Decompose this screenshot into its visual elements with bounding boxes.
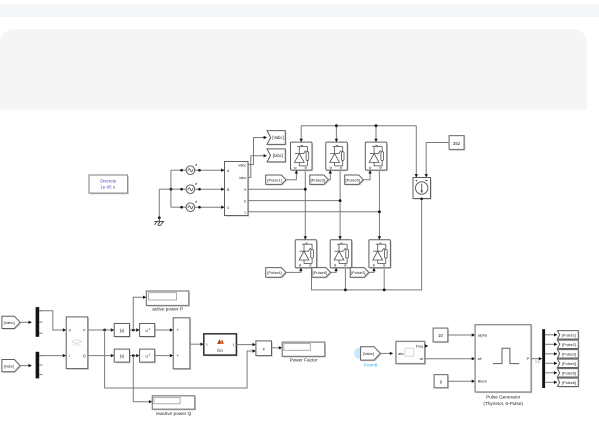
wire from Vabc to demux (20, 321, 28, 323)
svg-text:10: 10 (438, 333, 443, 338)
junction top bus T5 (375, 124, 378, 127)
svg-text:C: C (227, 206, 230, 210)
svg-text:[Pulse4]: [Pulse4] (562, 361, 576, 366)
junction |Q| (132, 354, 135, 357)
wire abs to square P (130, 329, 137, 331)
svg-text:Pulse Generator: Pulse Generator (486, 394, 521, 399)
wire demux out 5 (545, 372, 554, 374)
thyristor T2 (369, 240, 392, 269)
demux stub (39, 332, 42, 334)
wire demux out 1 (545, 334, 554, 336)
goto Iabc (268, 150, 286, 163)
svg-text:active power P: active power P (152, 307, 183, 312)
svg-text:c: c (244, 211, 246, 215)
thyristor T4 (295, 240, 318, 269)
svg-text:[Pulse3]: [Pulse3] (311, 177, 325, 182)
svg-text:From6: From6 (364, 363, 378, 369)
svg-text:[Vabc]: [Vabc] (363, 351, 374, 356)
wire Iabc to goto (248, 156, 264, 178)
wire (195, 206, 225, 208)
svg-text:abc: abc (398, 352, 404, 356)
virtual PLL block (397, 343, 426, 365)
wire bottom DC bus (312, 199, 422, 290)
wire bus to thyristor top (335, 126, 337, 142)
wire 0 to Block (448, 380, 472, 382)
square block u2 (Q) (141, 350, 156, 363)
wire to display P (133, 297, 143, 330)
wire bus to load + (415, 126, 417, 178)
junction phase a (304, 188, 307, 191)
svg-text:u: u (145, 328, 147, 333)
three-phase V-I measurement block (226, 163, 250, 217)
goto Pulse1 (559, 332, 580, 340)
wire Q out (88, 355, 111, 357)
svg-text:Power Factor: Power Factor (290, 358, 318, 363)
from Pulse1 (267, 176, 287, 185)
wire from Iabc to demux (20, 365, 28, 367)
controlled current source load (414, 179, 432, 200)
wire demux out 6 (545, 381, 554, 383)
wire demux out 3 (545, 353, 554, 355)
wire square to sum Q (155, 355, 170, 357)
header panel (0, 29, 587, 110)
svg-text:Vabc: Vabc (238, 164, 246, 168)
wire (195, 188, 225, 190)
wire P to demux (531, 358, 539, 360)
wire From6 to PLL (380, 352, 389, 354)
svg-text:352: 352 (453, 141, 461, 146)
svg-text:[Vabc]: [Vabc] (272, 135, 283, 140)
wire abs to square Q (130, 355, 137, 357)
thyristor T5 (365, 142, 388, 171)
sum block (174, 319, 191, 370)
junction |P| (132, 329, 135, 332)
svg-text:[Pulse1]: [Pulse1] (267, 177, 281, 182)
wire phase b vertical (339, 170, 341, 240)
svg-text:1e-05 s.: 1e-05 s. (100, 184, 116, 189)
thyristor T3 (326, 142, 349, 171)
demux pulses (542, 329, 545, 388)
junction bottom bus T6 (344, 289, 347, 292)
from Pulse3 (311, 176, 330, 185)
svg-text:[Pulse4]: [Pulse4] (267, 270, 281, 275)
svg-text:[Pulse1]: [Pulse1] (562, 332, 576, 337)
svg-text:[Pulse2]: [Pulse2] (351, 270, 365, 275)
svg-text:Q: Q (83, 354, 86, 358)
load - port (420, 198, 423, 201)
wire to ground (159, 188, 171, 190)
wire from Pulse6 to gate (331, 269, 337, 272)
wire sum to fcn (190, 343, 201, 345)
ground port (158, 216, 161, 219)
demux Vabc (36, 307, 40, 337)
wire from Pulse2 to gate (369, 269, 374, 272)
svg-text:|u|: |u| (120, 328, 124, 333)
constant 352 (450, 137, 465, 151)
wire P out (88, 329, 111, 331)
svg-text:Iabc: Iabc (239, 176, 246, 180)
junction source bus / ground tap (170, 188, 173, 191)
display Power Factor (283, 343, 326, 357)
wire P feedback to product (105, 330, 253, 388)
wire constant to source s input (426, 143, 449, 175)
from Pulse5 (346, 176, 365, 185)
junction phase b (339, 199, 342, 202)
svg-text:[Pulse5]: [Pulse5] (562, 370, 576, 375)
wire demux out 4 (545, 362, 554, 364)
svg-text:reactive power Q: reactive power Q (156, 411, 192, 416)
wire square to sum P (155, 329, 170, 331)
wire phase a horizontal (248, 188, 305, 190)
from Pulse2 (351, 269, 370, 279)
abs block |u| (P) (115, 325, 130, 338)
wire T6 cathode (344, 268, 346, 290)
wire phase a vertical (304, 170, 306, 240)
junction top bus T3 (335, 124, 338, 127)
svg-text:[Pulse3]: [Pulse3] (562, 351, 576, 356)
selection glow From6 (354, 347, 368, 359)
abs block |u| (Q) (115, 350, 130, 363)
power measurement block P Q (67, 318, 89, 370)
demux stub (39, 374, 42, 376)
junction phase c (378, 210, 381, 213)
svg-text:[Pulse6]: [Pulse6] (562, 380, 576, 385)
junction P (103, 329, 106, 332)
svg-text:[Iabc]: [Iabc] (273, 153, 283, 158)
svg-text:Discrete: Discrete (100, 179, 117, 184)
display active power P (148, 292, 190, 307)
ground (154, 218, 164, 226)
goto Pulse5 (559, 370, 580, 378)
svg-text:[Vabc]: [Vabc] (4, 320, 15, 325)
junction bottom bus T2 (383, 289, 386, 292)
display reactive power Q (154, 397, 197, 410)
from Vabc From6 (362, 348, 382, 361)
wire T2 cathode (383, 268, 385, 290)
goto Pulse6 (559, 379, 580, 387)
thyristor T6 (330, 240, 353, 269)
wire source bus vertical (170, 170, 172, 207)
wire demux out 2 (545, 343, 554, 345)
wire from Pulse3 to gate (328, 172, 330, 180)
svg-text:[Pulse5]: [Pulse5] (346, 177, 360, 182)
goto Vabc (268, 132, 286, 146)
wire (195, 169, 225, 171)
svg-text:[Iabc]: [Iabc] (4, 363, 14, 368)
MATLAB fcn block (205, 335, 238, 356)
wire (171, 188, 186, 190)
svg-text:[Pulse2]: [Pulse2] (562, 342, 576, 347)
wire phase c vertical (378, 170, 380, 240)
demux stub (39, 355, 42, 357)
svg-text:|u|: |u| (120, 354, 124, 359)
goto Pulse2 (559, 341, 580, 349)
wire fcn to product (236, 344, 252, 346)
constant 0 block (435, 376, 449, 389)
svg-text:wt: wt (420, 357, 424, 361)
svg-text:b: b (244, 199, 246, 203)
wire bus to thyristor top (375, 126, 377, 142)
svg-text:5:6: 5:6 (535, 360, 540, 364)
demux stub (39, 310, 42, 312)
wire from Pulse5 to gate (363, 172, 370, 180)
wire 10 to alpha (448, 334, 472, 336)
goto Pulse4 (559, 360, 580, 368)
demux stub (39, 321, 42, 323)
pulse generator block (476, 326, 532, 393)
wire demux to power I (39, 355, 63, 357)
wire demux to power V (39, 311, 63, 330)
from Pulse6 (313, 269, 332, 279)
demux stub (39, 364, 42, 366)
from Vabc (3, 317, 21, 329)
header bar top (0, 5, 599, 18)
port Freq stub (425, 344, 428, 347)
svg-text:u: u (206, 343, 208, 347)
wire from Pulse1 to gate (286, 172, 296, 180)
wire (171, 206, 186, 208)
thyristor T1 (291, 142, 314, 171)
svg-text:I: I (69, 354, 70, 358)
wire wt to pulse generator (425, 358, 472, 360)
demux Iabc (36, 352, 40, 379)
wire phase b horizontal (248, 200, 340, 202)
svg-text:alpha: alpha (478, 333, 488, 337)
wire from Pulse4 to gate (286, 269, 301, 272)
wire Vabc to goto (248, 138, 264, 165)
svg-text:Block: Block (478, 380, 487, 384)
wire to display Q (133, 356, 149, 402)
wire top DC bus (301, 125, 416, 127)
svg-text:[Pulse6]: [Pulse6] (313, 270, 327, 275)
svg-text:fcn: fcn (217, 348, 223, 353)
from Pulse4 (267, 269, 287, 279)
wire (158, 189, 160, 218)
product block (257, 342, 273, 357)
svg-text:u: u (145, 354, 147, 359)
wire (171, 169, 186, 171)
svg-text:Freq: Freq (416, 344, 423, 348)
from Iabc (3, 361, 21, 373)
constant 10 alpha (434, 329, 449, 343)
wire bus to thyristor top (300, 126, 302, 142)
wire product to display (272, 347, 279, 349)
svg-text:(Thyristor, 6-Pulse): (Thyristor, 6-Pulse) (483, 401, 523, 406)
square block u2 (P) (141, 325, 156, 338)
goto Pulse3 (559, 351, 580, 359)
wire phase c horizontal (248, 211, 379, 213)
powergui block Discrete (90, 176, 129, 194)
